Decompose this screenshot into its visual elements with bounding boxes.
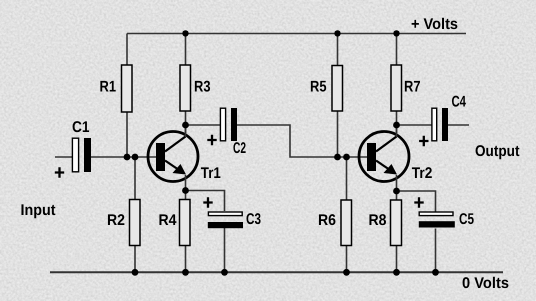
capacitor C2 <box>207 108 237 145</box>
node base Tr2 R5 junction <box>334 154 341 161</box>
node emitter Tr2 junction <box>393 188 400 195</box>
capacitor C3 <box>203 197 243 228</box>
svg-text:R5: R5 <box>310 79 327 96</box>
resistor R2 <box>130 200 141 246</box>
capacitor C5 <box>414 197 455 227</box>
node +V rail R7 junction <box>393 30 399 36</box>
node collector Tr1 junction <box>182 122 189 129</box>
node base Tr2 R6 junction <box>343 154 350 161</box>
wire C3 bottom lead <box>224 228 226 272</box>
node base Tr1 R1 junction <box>124 154 131 161</box>
svg-text:C5: C5 <box>459 211 474 228</box>
wire R3 top lead <box>185 34 187 66</box>
svg-text:R8: R8 <box>369 212 387 229</box>
wire Tr2 collector to C4 <box>397 124 432 126</box>
node 0V R4 junction <box>182 269 189 276</box>
svg-text:C2: C2 <box>233 140 246 157</box>
wire C1 to Tr1 base <box>91 156 156 158</box>
svg-text:R6: R6 <box>318 212 336 229</box>
resistor R3 <box>180 65 191 111</box>
wire R3 bottom lead to collector <box>185 111 187 134</box>
wire R8 bottom lead <box>396 246 398 273</box>
svg-text:Tr2: Tr2 <box>412 165 433 182</box>
resistor R8 <box>391 200 402 246</box>
svg-text:R2: R2 <box>107 212 125 229</box>
svg-text:0 Volts: 0 Volts <box>462 275 509 292</box>
svg-text:Input: Input <box>21 202 56 219</box>
svg-text:+ Volts: + Volts <box>411 16 458 33</box>
node 0V R8 junction <box>393 269 400 276</box>
svg-text:R1: R1 <box>100 79 117 96</box>
wire Tr1 collector to C2 <box>186 124 221 126</box>
svg-text:Tr1: Tr1 <box>201 165 221 182</box>
wire R1 top lead <box>126 34 128 66</box>
transistor Tr1 <box>148 125 198 191</box>
wire R1 bottom lead <box>126 112 128 157</box>
wire C2 to step corner <box>237 125 367 157</box>
wire input lead <box>55 156 72 158</box>
node 0V R6 junction <box>343 269 350 276</box>
node collector Tr2 junction <box>393 122 400 129</box>
node 0V R2 junction <box>132 269 139 276</box>
capacitor C1 <box>55 138 91 178</box>
wire R8 top lead <box>396 191 398 200</box>
capacitor C4 <box>419 108 448 146</box>
wire R7 bottom lead to collector <box>396 111 398 134</box>
svg-text:Output: Output <box>475 143 520 160</box>
resistor R7 <box>391 65 402 111</box>
svg-text:R7: R7 <box>404 79 421 96</box>
wire R6 bottom lead <box>346 246 348 273</box>
wire C5 bottom lead <box>435 229 437 273</box>
wire R4 top lead <box>185 191 187 200</box>
resistor R4 <box>180 200 191 246</box>
wire +V rail <box>127 33 466 35</box>
svg-text:R4: R4 <box>159 212 177 229</box>
svg-text:C1: C1 <box>72 119 90 136</box>
wire 0V rail <box>50 271 503 273</box>
wire C4 to output <box>448 124 469 126</box>
wire R6 top lead <box>346 157 348 200</box>
node base Tr1 R2 junction <box>132 154 139 161</box>
wire emitter Tr2 to C5 <box>397 191 436 212</box>
node 0V C3 junction <box>221 269 228 276</box>
node 0V C5 junction <box>432 269 439 276</box>
wire emitter Tr1 to C3 <box>186 191 225 212</box>
svg-text:C4: C4 <box>452 94 467 111</box>
wire R7 top lead <box>396 34 398 66</box>
wire R2 top lead <box>134 157 136 200</box>
svg-text:C3: C3 <box>246 211 261 228</box>
resistor R1 <box>122 65 133 112</box>
resistor R6 <box>341 200 352 246</box>
transistor Tr2 <box>359 125 409 191</box>
node +V rail R3 junction <box>182 30 188 36</box>
svg-text:R3: R3 <box>194 79 211 96</box>
wire R5 bottom lead <box>337 111 339 157</box>
wire R4 bottom lead <box>185 246 187 273</box>
node +V rail R5 junction <box>334 30 340 36</box>
node emitter Tr1 junction <box>182 187 189 194</box>
wire R5 top lead <box>337 34 339 66</box>
resistor R5 <box>332 66 343 112</box>
wire R2 bottom lead <box>134 246 136 273</box>
